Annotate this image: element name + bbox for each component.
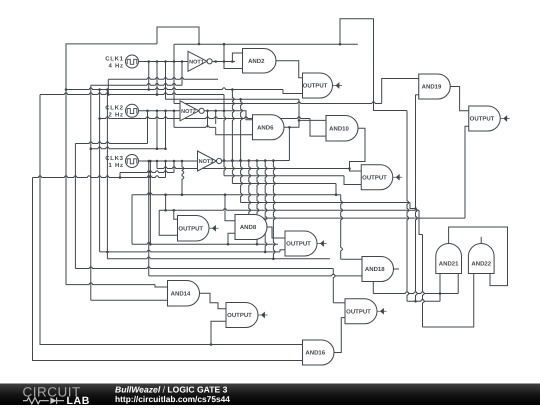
svg-text:CLK1: CLK1 bbox=[105, 55, 123, 62]
junction bbox=[164, 147, 167, 150]
wire rail x32 to AND16 input B bbox=[33, 178, 303, 361]
svg-text:AND14: AND14 bbox=[171, 290, 191, 297]
wire bus y168 to OUTPUT3 input A bbox=[157, 167, 350, 169]
svg-text:OUTPUT: OUTPUT bbox=[346, 308, 371, 315]
junction bbox=[149, 243, 152, 246]
wire riser to OUTPUT2 input B bbox=[465, 126, 469, 218]
wire rail x240 bbox=[241, 99, 243, 202]
junction bbox=[231, 60, 234, 63]
wire bbox=[419, 210, 423, 234]
svg-text:AND6: AND6 bbox=[257, 124, 274, 131]
svg-text:http://circuitlab.com/cs75s44: http://circuitlab.com/cs75s44 bbox=[115, 394, 230, 404]
wire bus y300 to AND14 input B bbox=[91, 299, 168, 301]
svg-text:CLK3: CLK3 bbox=[105, 155, 123, 162]
junction bbox=[227, 243, 230, 246]
wire CLK2 to NOT2 bbox=[138, 110, 180, 112]
wire bus y268 bbox=[75, 267, 333, 269]
wire bus y183 bbox=[232, 183, 336, 185]
wire AND19 input B bbox=[416, 94, 419, 96]
wire to AND2 input A bbox=[232, 53, 242, 62]
wire top-right loop bbox=[340, 19, 407, 111]
junction bbox=[156, 147, 159, 150]
wire bus y258 bbox=[107, 257, 330, 259]
junction bbox=[335, 193, 338, 196]
wire AND2 out to OUTPUT1 input A bbox=[276, 61, 303, 78]
junction bbox=[414, 207, 417, 210]
junction bbox=[164, 110, 167, 113]
wire to OUTPUT5 input B bbox=[280, 250, 285, 252]
junction bbox=[214, 60, 217, 63]
junction bbox=[98, 88, 101, 91]
wire rail x150.4 bbox=[149, 161, 151, 244]
output gate OUT4 bbox=[178, 216, 219, 242]
wire bbox=[265, 161, 267, 252]
wire AND22 output stub bbox=[480, 237, 482, 244]
junction bbox=[98, 117, 101, 120]
wire bus y177 bbox=[33, 176, 166, 178]
wire to AND19 input A bbox=[382, 79, 419, 104]
junction bbox=[264, 251, 267, 254]
junction bbox=[414, 300, 417, 303]
wire bus y94 bbox=[40, 93, 224, 95]
junction bbox=[272, 159, 275, 162]
wire drop to OUTPUT7 bbox=[333, 269, 335, 303]
output gate OUT3 bbox=[361, 165, 402, 190]
svg-text:OUTPUT: OUTPUT bbox=[362, 174, 387, 181]
svg-text:4 Hz: 4 Hz bbox=[109, 62, 124, 69]
AND gate AND21 (pointing up) bbox=[436, 243, 462, 273]
wire bus1 drop to AND18 input A bbox=[341, 195, 343, 260]
wire rail x107.4 bbox=[106, 90, 108, 259]
wire to AND22 input A bbox=[423, 274, 474, 328]
wire bus y99 bbox=[166, 98, 300, 100]
junction bbox=[173, 110, 176, 113]
junction bbox=[239, 98, 242, 101]
wire bbox=[273, 161, 275, 259]
wire bus y210 bbox=[159, 209, 419, 211]
wire CLK1 to NOT1 bbox=[138, 61, 188, 63]
wire bbox=[249, 161, 251, 218]
AND gate AND22 (pointing up) bbox=[468, 243, 494, 273]
AND gate AND18 bbox=[362, 257, 393, 282]
junction bbox=[214, 110, 217, 113]
junction bbox=[223, 159, 226, 162]
wire bbox=[119, 173, 121, 178]
junction bbox=[298, 119, 301, 122]
AND gate AND2 bbox=[243, 49, 277, 74]
svg-text:AND21: AND21 bbox=[439, 261, 459, 268]
wire rail x232 bbox=[232, 90, 234, 184]
wire bus y127 bbox=[174, 126, 216, 128]
svg-text:NOT2: NOT2 bbox=[181, 109, 196, 115]
junction bbox=[223, 60, 226, 63]
svg-text:OUTPUT: OUTPUT bbox=[470, 116, 495, 123]
junction bbox=[164, 193, 167, 196]
wire bbox=[257, 161, 259, 244]
wire NOT1 output bbox=[212, 61, 235, 63]
junction bbox=[239, 159, 242, 162]
AND gate AND16 bbox=[303, 340, 335, 365]
junction bbox=[147, 88, 150, 91]
junction bbox=[173, 60, 176, 63]
junction bbox=[206, 110, 209, 113]
wire bbox=[215, 111, 217, 124]
wire pocket drop x132 bbox=[131, 195, 133, 245]
wire AND14 out to OUTPUT6 input A bbox=[200, 293, 227, 309]
wire bbox=[147, 111, 149, 144]
junction bbox=[65, 88, 68, 91]
wire AND8 input A bbox=[225, 195, 235, 221]
wire bbox=[410, 203, 416, 209]
junction bbox=[256, 159, 259, 162]
svg-text:AND16: AND16 bbox=[305, 350, 325, 357]
wire bbox=[148, 62, 150, 90]
wire bbox=[173, 161, 175, 173]
wire AND6 out to AND10 input A bbox=[284, 120, 326, 127]
wire rail x407 bbox=[407, 111, 409, 302]
junction bbox=[181, 160, 184, 163]
AND gate AND19 bbox=[419, 74, 450, 99]
junction bbox=[181, 60, 184, 63]
wire bbox=[207, 111, 209, 128]
wire bus y275 to AND18 input B bbox=[149, 274, 362, 276]
NOT gate NOT1 bbox=[188, 51, 212, 71]
svg-text:1 Hz: 1 Hz bbox=[109, 162, 124, 169]
wire bbox=[156, 62, 158, 95]
svg-text:OUTPUT: OUTPUT bbox=[178, 225, 203, 232]
junction bbox=[210, 343, 213, 346]
wire bus y103 bbox=[174, 102, 382, 104]
CircuitLab logo resistor-diode glyph bbox=[23, 398, 49, 404]
output gate OUT1 bbox=[303, 73, 343, 98]
wire rail x224 mid bbox=[224, 111, 226, 176]
junction bbox=[164, 60, 167, 63]
svg-text:AND10: AND10 bbox=[329, 125, 349, 132]
wire link bbox=[165, 195, 167, 211]
wire bbox=[156, 111, 158, 149]
junction bbox=[248, 159, 251, 162]
junction bbox=[164, 160, 167, 163]
wire to OUTPUT4 input A bbox=[174, 210, 178, 219]
junction bbox=[173, 209, 176, 212]
wire bus y251 bbox=[100, 250, 280, 252]
wire OUTPUT6 input B bbox=[211, 321, 226, 344]
wire AND21 input A drop bbox=[439, 274, 441, 302]
junction bbox=[264, 159, 267, 162]
junction bbox=[181, 193, 184, 196]
wire bus y301 bbox=[407, 300, 440, 302]
wire AND10 out loop to OUTPUT3 input A bbox=[350, 128, 366, 171]
wire link bbox=[298, 99, 300, 120]
junction bbox=[198, 43, 201, 46]
output gate OUT5 bbox=[285, 231, 327, 256]
wire bus y293 bbox=[373, 292, 458, 294]
junction bbox=[106, 251, 109, 254]
svg-text:AND8: AND8 bbox=[240, 224, 257, 231]
wire to AND2 input B bbox=[224, 62, 243, 69]
junction bbox=[439, 292, 442, 295]
wire rail x148.75 bbox=[148, 161, 150, 276]
wire drop x108 bbox=[107, 79, 109, 94]
junction bbox=[223, 110, 226, 113]
wire bus y194 bbox=[132, 193, 341, 195]
junction bbox=[156, 110, 159, 113]
junction bbox=[156, 93, 159, 96]
wire bus y202 bbox=[241, 202, 410, 204]
wire bus y89 bbox=[66, 88, 283, 90]
svg-text:CLK2: CLK2 bbox=[105, 105, 123, 112]
wire bus y172 bbox=[120, 171, 174, 173]
wire AND22 loop drop bbox=[423, 235, 425, 328]
junction bbox=[156, 60, 159, 63]
junction bbox=[223, 43, 226, 46]
wire link x224 bbox=[223, 44, 225, 61]
wire bbox=[173, 62, 175, 104]
svg-text:OUTPUT: OUTPUT bbox=[303, 83, 328, 90]
wire to AND6 input B bbox=[216, 127, 253, 134]
wire riser x289 bbox=[288, 127, 290, 160]
wire bbox=[165, 62, 167, 100]
junction bbox=[173, 160, 176, 163]
svg-text:NOT3: NOT3 bbox=[199, 159, 214, 165]
wire bbox=[165, 161, 167, 178]
junction bbox=[348, 167, 351, 170]
output gate OUT2 bbox=[469, 106, 510, 131]
wire bus y79 bbox=[108, 78, 218, 80]
junction bbox=[231, 88, 234, 91]
wire bus y148 bbox=[91, 147, 166, 149]
AND gate AND10 bbox=[326, 116, 358, 142]
wire AND18 input A bbox=[341, 258, 362, 260]
junction bbox=[339, 43, 342, 46]
AND gate AND8 bbox=[235, 215, 267, 240]
svg-text:OUTPUT: OUTPUT bbox=[286, 241, 311, 248]
junction bbox=[119, 176, 122, 179]
svg-text:OUTPUT: OUTPUT bbox=[227, 312, 252, 319]
svg-text:AND18: AND18 bbox=[365, 266, 385, 273]
wire jog over top bbox=[157, 27, 199, 44]
wire rail x90.8 bbox=[90, 85, 92, 300]
wire drop x174 CLK2 bbox=[173, 111, 175, 128]
junction bbox=[106, 88, 109, 91]
junction bbox=[272, 258, 275, 261]
wire AND18 output stub bbox=[394, 268, 400, 270]
wire bus y218 bbox=[249, 217, 465, 219]
svg-text:LAB: LAB bbox=[67, 395, 90, 405]
wire to OUTPUT4 input B bbox=[159, 210, 177, 235]
clock source CLK1 bbox=[105, 55, 138, 69]
junction bbox=[239, 159, 242, 162]
wire AND21 input B drop bbox=[457, 274, 459, 294]
wire to OUTPUT1 input B bbox=[283, 90, 303, 94]
wire rail x99.6 bbox=[99, 90, 101, 252]
wire NOT2 output to AND6 input A bbox=[204, 111, 252, 120]
AND gate AND6 bbox=[253, 115, 285, 140]
junction bbox=[107, 93, 110, 96]
wire rail x40 to AND16 input A bbox=[40, 95, 303, 345]
wire left frame rail x66 bbox=[66, 44, 157, 285]
svg-text:AND19: AND19 bbox=[422, 84, 442, 91]
AND gate AND14 bbox=[168, 281, 200, 307]
wire to AND14 input A bbox=[155, 285, 168, 287]
svg-text:AND22: AND22 bbox=[471, 261, 491, 268]
clock source CLK2 bbox=[105, 104, 138, 118]
wire to AND10 input B bbox=[310, 119, 326, 137]
wire bbox=[156, 161, 158, 169]
wire bus y85 bbox=[91, 83, 182, 85]
wire bbox=[165, 111, 167, 149]
junction bbox=[231, 159, 234, 162]
wire bus y175 to OUTPUT3 input B bbox=[224, 175, 344, 177]
wire AND19 out to OUTPUT2 input A bbox=[450, 87, 468, 111]
wire drop under AND18 bbox=[372, 282, 374, 294]
svg-text:2 Hz: 2 Hz bbox=[109, 112, 124, 119]
wire NOT3 output bbox=[222, 160, 290, 163]
clock source CLK3 bbox=[105, 155, 138, 169]
wire CLK3 to NOT3 bbox=[138, 160, 197, 162]
NOT gate NOT3 bbox=[198, 151, 222, 171]
wire bbox=[181, 62, 183, 86]
junction bbox=[224, 193, 227, 196]
junction bbox=[231, 159, 234, 162]
svg-text:NOT1: NOT1 bbox=[189, 59, 204, 65]
wire bus y284 bbox=[66, 283, 155, 285]
NOT gate NOT2 bbox=[180, 101, 204, 121]
wire OUTPUT7 input A bbox=[333, 302, 345, 304]
wire AND8 input B bbox=[228, 233, 235, 244]
junction bbox=[146, 110, 149, 113]
junction bbox=[90, 147, 93, 150]
junction bbox=[288, 126, 291, 129]
junction bbox=[147, 160, 150, 163]
junction bbox=[149, 160, 152, 163]
wire bbox=[182, 161, 184, 195]
output gate OUT7 bbox=[345, 299, 387, 324]
wire drop x174 to CLK1 net bbox=[173, 44, 175, 61]
wire rail x415.5 bbox=[416, 95, 418, 301]
output gate OUT6 bbox=[226, 303, 268, 328]
wire bus y118 bbox=[100, 117, 310, 119]
svg-text:AND2: AND2 bbox=[248, 58, 265, 65]
wire drop x224 to CLK2 bbox=[223, 95, 225, 111]
junction bbox=[223, 159, 226, 162]
junction bbox=[147, 60, 150, 63]
wire AND21 out loop to AND22 input B bbox=[449, 227, 508, 286]
wire top bus y44 bbox=[174, 43, 358, 45]
wire bus y143 bbox=[75, 142, 147, 144]
wire bbox=[344, 176, 361, 185]
wire AND8 out to OUTPUT5 input A bbox=[267, 227, 285, 238]
junction bbox=[256, 243, 259, 246]
wire bbox=[335, 184, 337, 195]
junction bbox=[164, 209, 167, 212]
wire AND16 out to OUTPUT7 input B bbox=[334, 318, 345, 353]
wire bus y244 bbox=[132, 242, 278, 244]
wire rail x75 bbox=[74, 144, 76, 269]
junction bbox=[156, 160, 159, 163]
junction bbox=[156, 93, 159, 96]
